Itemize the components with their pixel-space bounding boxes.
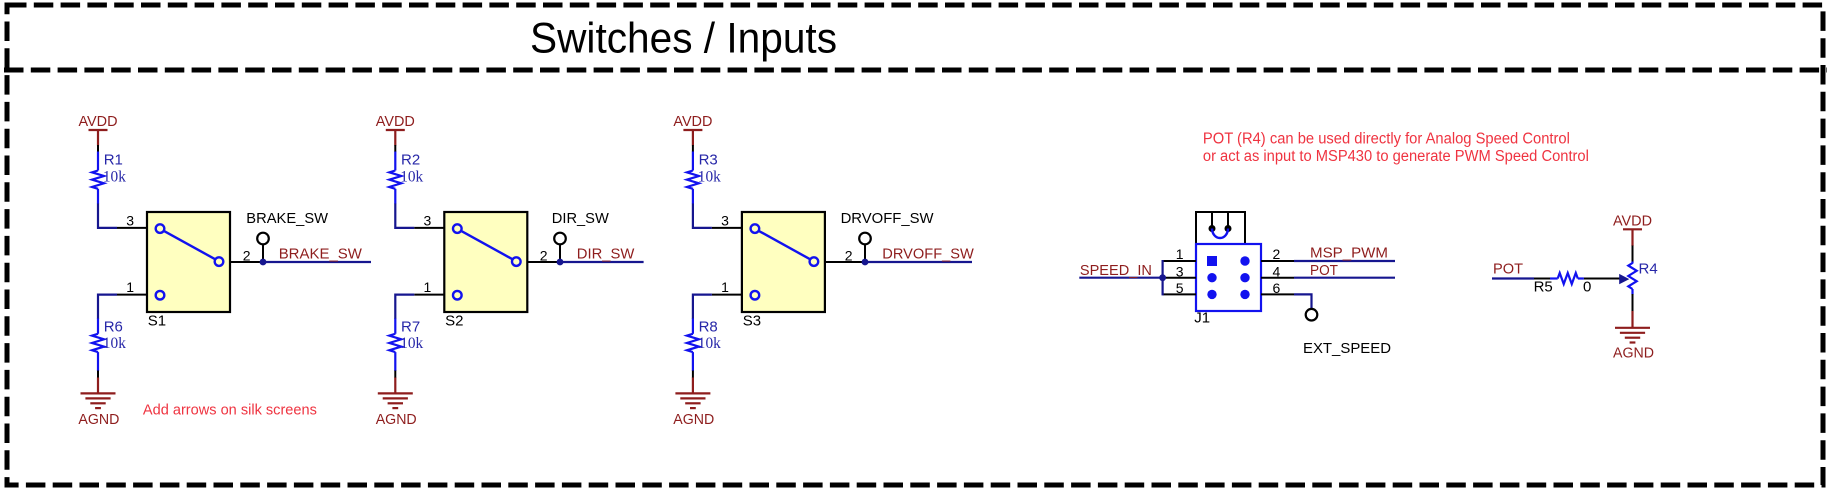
wire: [395, 204, 414, 228]
wire: [97, 145, 99, 152]
wire: [692, 145, 694, 152]
power AVDD (S2 pull-up): [376, 113, 415, 146]
wire: [394, 371, 396, 379]
svg-text:POT: POT: [1493, 260, 1523, 277]
svg-text:POT (R4) can be used directly: POT (R4) can be used directly for Analog…: [1203, 130, 1570, 147]
pin 6 of J1: [1261, 280, 1294, 296]
resistor R7 10k: [389, 319, 423, 372]
svg-text:DRVOFF_SW: DRVOFF_SW: [841, 210, 935, 227]
svg-text:AGND: AGND: [673, 411, 714, 428]
svg-text:AVDD: AVDD: [79, 113, 118, 130]
svg-text:R6: R6: [104, 319, 123, 336]
net label MSP_PWM: [1310, 244, 1388, 261]
svg-text:2: 2: [540, 247, 548, 263]
pin 2 of J1: [1261, 246, 1294, 262]
svg-text:2: 2: [845, 247, 853, 263]
svg-text:3: 3: [721, 212, 729, 228]
net label POT (R5 input): [1493, 260, 1523, 277]
svg-text:5: 5: [1176, 280, 1184, 296]
svg-text:S3: S3: [743, 312, 761, 329]
svg-text:or act as input to MSP430 to g: or act as input to MSP430 to generate PW…: [1203, 148, 1589, 165]
wire: [395, 295, 414, 319]
svg-text:6: 6: [1273, 280, 1281, 296]
wire: [693, 204, 712, 228]
power AVDD (R4 top): [1613, 213, 1652, 247]
net label BRAKE_SW: [263, 245, 371, 262]
svg-text:R5: R5: [1534, 279, 1553, 296]
svg-text:DIR_SW: DIR_SW: [577, 245, 635, 262]
wire: [692, 371, 694, 379]
svg-text:10k: 10k: [103, 335, 126, 352]
pin 3 of S2: [414, 212, 444, 228]
wire: [98, 295, 117, 319]
svg-text:0: 0: [1583, 279, 1591, 296]
net label DIR_SW: [560, 245, 644, 262]
annotation: POT usage note: [1203, 130, 1589, 165]
test point DIR_SW: [552, 210, 610, 262]
switch S1 (SPDT slide switch): [147, 212, 230, 329]
pin 2 of S1: [230, 247, 263, 263]
svg-text:R7: R7: [401, 319, 420, 336]
title Switches / Inputs: [530, 15, 837, 63]
net MSP_PWM wire: [1294, 260, 1395, 262]
svg-text:AVDD: AVDD: [673, 113, 712, 130]
svg-text:J1: J1: [1194, 310, 1210, 327]
power AVDD (S3 pull-up): [673, 113, 712, 146]
svg-text:10k: 10k: [400, 335, 423, 352]
jumper shunt on J1: [1196, 212, 1245, 244]
wire: [693, 295, 712, 319]
net label DRVOFF_SW: [865, 245, 975, 262]
svg-text:AGND: AGND: [78, 411, 119, 428]
svg-text:DIR_SW: DIR_SW: [552, 210, 610, 227]
junction: [260, 259, 267, 266]
wire: [97, 371, 99, 379]
pin 3 of J1: [1163, 263, 1196, 279]
svg-text:1: 1: [126, 279, 134, 295]
wire: [1632, 294, 1634, 311]
svg-text:SPEED_IN: SPEED_IN: [1080, 262, 1152, 279]
svg-text:3: 3: [424, 212, 432, 228]
svg-text:10k: 10k: [698, 168, 721, 185]
switch S3 (SPDT slide switch): [742, 212, 825, 329]
svg-text:1: 1: [721, 279, 729, 295]
wire: [1492, 277, 1534, 279]
resistor R1 10k: [92, 152, 126, 204]
pin 2 of S3: [825, 247, 865, 263]
annotation: Add arrows on silk screens: [143, 401, 317, 418]
svg-text:R4: R4: [1639, 260, 1658, 277]
svg-text:1: 1: [1176, 246, 1184, 262]
wire: [1632, 246, 1634, 263]
svg-text:BRAKE_SW: BRAKE_SW: [279, 245, 363, 262]
test point EXT_SPEED: [1303, 309, 1391, 357]
test point DRVOFF_SW: [841, 210, 935, 262]
svg-text:10k: 10k: [103, 168, 126, 185]
svg-text:MSP_PWM: MSP_PWM: [1310, 244, 1388, 261]
svg-text:S1: S1: [148, 312, 166, 329]
svg-text:POT: POT: [1310, 262, 1338, 279]
pin 3 of S1: [117, 212, 147, 228]
net POT wire: [1294, 277, 1395, 279]
switch S2 (SPDT slide switch): [444, 212, 527, 329]
pin 3 of S3: [712, 212, 742, 228]
pin 1 of S3: [712, 279, 742, 295]
net label POT: [1310, 262, 1338, 279]
ground AGND (R4 bottom): [1613, 311, 1654, 362]
wire: [394, 145, 396, 152]
svg-text:3: 3: [126, 212, 134, 228]
svg-text:EXT_SPEED: EXT_SPEED: [1303, 340, 1391, 357]
svg-text:10k: 10k: [698, 335, 721, 352]
pin 1 of J1: [1163, 246, 1196, 262]
svg-text:AGND: AGND: [1613, 345, 1654, 362]
pin 5 of J1: [1163, 280, 1196, 296]
svg-text:R1: R1: [104, 152, 123, 169]
net SPEED_IN bus wire: [1079, 260, 1162, 295]
pin 1 of S2: [414, 279, 444, 295]
junction: [1159, 274, 1166, 281]
svg-text:Switches / Inputs: Switches / Inputs: [530, 15, 837, 63]
pin 4 of J1: [1261, 263, 1294, 279]
junction: [557, 259, 564, 266]
svg-text:R8: R8: [699, 319, 718, 336]
svg-text:AVDD: AVDD: [1613, 213, 1652, 230]
ground AGND (S2 pull-down): [376, 378, 417, 429]
svg-text:AGND: AGND: [376, 411, 417, 428]
svg-text:AVDD: AVDD: [376, 113, 415, 130]
svg-text:2: 2: [243, 247, 251, 263]
wiper arrow of R4: [1619, 274, 1629, 284]
potentiometer R4: [1628, 260, 1657, 294]
svg-text:Add arrows on silk screens: Add arrows on silk screens: [143, 401, 317, 418]
svg-text:S2: S2: [445, 312, 463, 329]
ground AGND (S1 pull-down): [78, 378, 119, 429]
connector J1 (6-pin header): [1194, 244, 1261, 327]
svg-text:DRVOFF_SW: DRVOFF_SW: [882, 245, 974, 262]
resistor R3 10k: [687, 152, 721, 204]
resistor R8 10k: [687, 319, 721, 372]
test point BRAKE_SW: [246, 210, 329, 262]
svg-text:1: 1: [424, 279, 432, 295]
net label SPEED_IN: [1080, 262, 1152, 279]
wire: [98, 204, 117, 228]
ground AGND (S3 pull-down): [673, 378, 714, 429]
svg-text:BRAKE_SW: BRAKE_SW: [246, 210, 329, 227]
power AVDD (S1 pull-up): [79, 113, 118, 146]
svg-text:4: 4: [1273, 263, 1281, 279]
net EXT_SPEED wire: [1294, 294, 1312, 309]
pin 2 of S2: [527, 247, 560, 263]
svg-text:R3: R3: [699, 152, 718, 169]
junction: [862, 259, 869, 266]
svg-text:10k: 10k: [400, 168, 423, 185]
svg-text:3: 3: [1176, 263, 1184, 279]
pin 1 of S1: [117, 279, 147, 295]
resistor R2 10k: [389, 152, 423, 204]
svg-text:R2: R2: [401, 152, 420, 169]
resistor R5 0: [1534, 273, 1620, 296]
resistor R6 10k: [92, 319, 126, 372]
svg-text:2: 2: [1273, 246, 1281, 262]
